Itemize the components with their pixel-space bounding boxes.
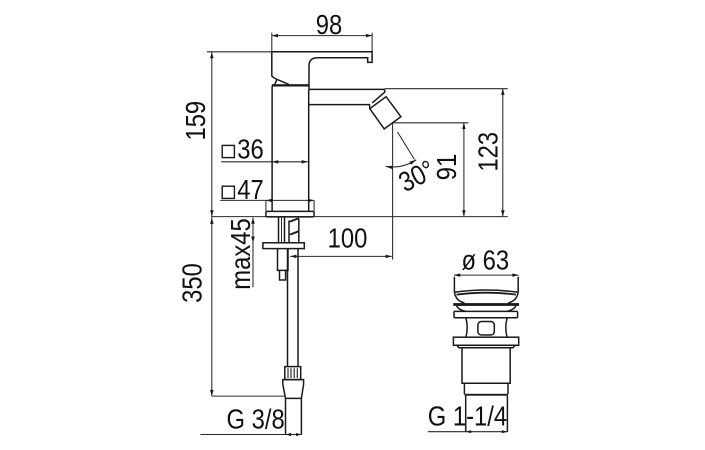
supply hose upper [289, 219, 299, 243]
drain flare below gasket [457, 306, 516, 312]
deck / mounting surface line [212, 216, 508, 218]
svg-text:100: 100 [328, 222, 368, 254]
label G 3/8 with leader [200, 433, 301, 436]
dimension square-36 [221, 160, 308, 164]
hose nut G3/8 [283, 380, 304, 399]
svg-text:98: 98 [316, 8, 342, 40]
clamp washer [263, 243, 304, 249]
svg-text:ø 63: ø 63 [462, 244, 510, 276]
dimension 91: dim line [393, 123, 469, 217]
drain gasket band (thick) [453, 303, 519, 306]
hose break mark 1 [288, 217, 299, 222]
label square 47 [222, 186, 234, 198]
hose collar fitting [285, 367, 301, 380]
svg-text:123: 123 [471, 132, 503, 172]
spout aerator nozzle (30deg) [370, 97, 401, 129]
drain threaded body [462, 348, 510, 384]
svg-text:36: 36 [237, 132, 263, 164]
spout [309, 89, 385, 108]
svg-text:350: 350 [176, 263, 208, 303]
label square 36 [222, 145, 234, 157]
supply hose lower [288, 249, 299, 367]
threaded stud upper [279, 217, 285, 243]
hose break mark 2 [289, 230, 299, 235]
faucet body top seam (thick) [272, 84, 309, 86]
drain overflow window [478, 322, 494, 336]
drain thick ring line [464, 394, 508, 396]
drain lower flange [453, 337, 518, 345]
svg-text:G 1-1/4: G 1-1/4 [428, 400, 507, 432]
faucet lever handle [272, 52, 372, 90]
svg-text:47: 47 [237, 173, 263, 205]
drain tail pipe [466, 396, 508, 432]
svg-text:159: 159 [179, 101, 211, 141]
drain: dimension dia 63 [454, 273, 519, 277]
dimension 100: dim line [290, 123, 392, 260]
drain upper flange [454, 311, 518, 317]
dimension max45: dim line [251, 218, 255, 288]
angle 30deg: reference ray and arc [386, 132, 417, 169]
dimension 123: dim line [385, 89, 508, 217]
faucet body column [272, 87, 309, 212]
label G 1-1/4 with leader [428, 430, 508, 433]
dimension 98: dim line [272, 33, 372, 52]
threaded stud lower [278, 249, 289, 280]
drain flange chamfer [457, 345, 515, 347]
svg-text:G 3/8: G 3/8 [227, 403, 285, 435]
drain body lower section [464, 383, 508, 394]
svg-text:max45: max45 [224, 218, 256, 289]
dimension 159: dim line [207, 52, 272, 217]
base plate [266, 211, 314, 217]
dimension square-47 [220, 199, 314, 212]
drain neck [466, 318, 507, 337]
drain cap [454, 277, 518, 303]
dimension 350: dim line [210, 217, 284, 397]
hose tail pipe [286, 398, 302, 434]
